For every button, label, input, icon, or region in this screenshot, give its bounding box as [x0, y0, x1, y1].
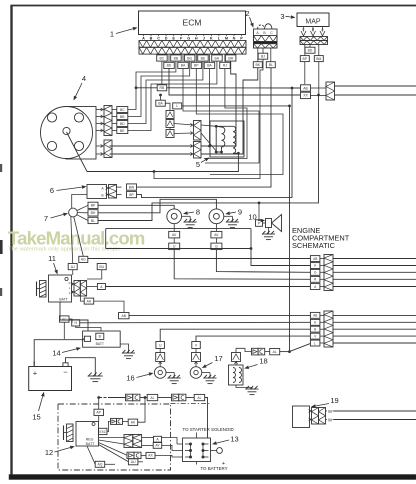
- splice 7 fan wires: [77, 205, 88, 210]
- svg-text:V: V: [195, 343, 198, 347]
- sender 8 code box upper: [169, 231, 180, 238]
- spark plug wire: [67, 132, 88, 172]
- svg-text:AU: AU: [131, 460, 136, 464]
- strip1 right wire A: [333, 286, 416, 288]
- wire H to strip2 H: [80, 321, 311, 324]
- wire battery plus to module 14: [34, 340, 84, 364]
- coil primary winding: [222, 127, 225, 147]
- svg-text:BATT: BATT: [86, 442, 96, 446]
- svg-text:P: P: [314, 264, 316, 268]
- distributor cap circle: [41, 107, 93, 159]
- wire MAP BP down: [304, 62, 306, 84]
- svg-text:BH: BH: [215, 56, 220, 60]
- sender 9 ground: [224, 215, 233, 217]
- wire BJ nested corner: [154, 59, 263, 178]
- svg-text:AV: AV: [214, 233, 219, 237]
- wire code box AL busA: [147, 394, 158, 400]
- svg-text:P: P: [258, 221, 261, 225]
- strip1 right wire G: [333, 271, 416, 273]
- svg-text:BP: BP: [303, 57, 308, 61]
- diode box D2: [166, 120, 174, 128]
- coil junction dots: [215, 125, 218, 128]
- svg-text:AY: AY: [155, 444, 160, 448]
- wire code box BH item7: [88, 210, 98, 216]
- wire code box L: [173, 103, 182, 109]
- svg-text:+: +: [222, 461, 225, 467]
- svg-text:REG: REG: [86, 437, 94, 441]
- wire 248 horizontal to strip P: [106, 248, 251, 250]
- svg-text:TakeManual.com: TakeManual.com: [8, 228, 145, 249]
- sensor 17 body: [190, 367, 202, 379]
- wire ECM b1 to RB: [161, 61, 163, 85]
- wire row2-b2 nested corner: [183, 69, 259, 164]
- svg-text:17: 17: [214, 354, 222, 363]
- pack 18 chain connector: [252, 348, 259, 355]
- svg-text:AB: AB: [313, 314, 317, 318]
- svg-text:L: L: [314, 341, 316, 345]
- svg-text:12: 12: [45, 448, 53, 457]
- svg-text:16: 16: [126, 374, 134, 383]
- svg-text:B: B: [150, 37, 153, 41]
- svg-text:BP: BP: [129, 193, 134, 197]
- bus wire segments: [108, 397, 126, 399]
- svg-text:BL: BL: [91, 219, 95, 223]
- wire code box AU: [128, 459, 138, 465]
- wire code box AG: [79, 256, 88, 262]
- wire code box A alt11: [97, 284, 105, 290]
- module 14 ground: [120, 344, 128, 353]
- wire code box AP: [94, 409, 104, 415]
- wire corner 228 horizontal: [106, 228, 251, 230]
- bus left dashes: [99, 397, 108, 399]
- module 14 box: [83, 331, 121, 347]
- starter connector 13 stubs: [177, 443, 183, 445]
- svg-text:BU: BU: [99, 265, 104, 269]
- svg-text:AB: AB: [313, 257, 317, 261]
- svg-text:The watermark only appears on: The watermark only appears on this sampl…: [8, 247, 120, 253]
- strip2 code box AB: [310, 312, 320, 318]
- wire sensor17 up to strip2 V: [196, 336, 311, 341]
- coil secondary winding: [233, 126, 236, 153]
- coil connector upper: [194, 121, 202, 141]
- svg-text:AL: AL: [150, 396, 154, 400]
- strip2 right wire B: [333, 328, 416, 330]
- MAP wire code box BP: [304, 44, 306, 55]
- svg-text:9: 9: [238, 208, 242, 217]
- exc chain arrows: [111, 418, 117, 424]
- svg-text:BL: BL: [269, 63, 273, 67]
- resistor pack 18 ground: [236, 385, 252, 389]
- strip2 code box V: [310, 333, 320, 339]
- wire code box BA: [156, 100, 166, 106]
- strip1 code box P: [310, 263, 320, 269]
- connector J2 jumper hump dashed: [258, 25, 265, 29]
- sender 8 body: [167, 209, 182, 224]
- strip1 right wire AB: [333, 258, 416, 260]
- bottom border bar: [9, 475, 416, 480]
- alternator 11 box: [49, 275, 72, 302]
- svg-text:7: 7: [44, 214, 48, 223]
- connector 19 bowties: [312, 408, 319, 425]
- bulkhead strip 1 zigzag: [324, 255, 333, 291]
- wire BW to BL corner: [137, 68, 272, 187]
- alternator 12 box: [76, 422, 99, 447]
- bulkhead strip 2 zigzag: [324, 311, 333, 347]
- svg-text:A: A: [314, 285, 317, 289]
- wire ECM b5 to distributor BE: [128, 61, 217, 130]
- ECM connector strip row 1: [139, 41, 246, 48]
- strip2 right wire AB: [333, 314, 416, 316]
- wire code box AH: [84, 298, 94, 304]
- wire distributor lower to coil C1: [110, 145, 194, 147]
- strip2 code box L: [310, 340, 320, 346]
- strip1 code box R: [310, 276, 320, 282]
- wire row2-b5 nested corner: [204, 69, 247, 159]
- distributor tower circles: [47, 113, 56, 122]
- svg-text:V: V: [314, 334, 317, 338]
- alternator 12 terminal circle: [92, 423, 95, 426]
- svg-text:C: C: [270, 31, 273, 35]
- svg-text:19: 19: [330, 396, 338, 405]
- svg-text:6: 6: [50, 186, 54, 195]
- battery 15 terminals: [33, 362, 35, 367]
- svg-text:H: H: [74, 321, 77, 325]
- wire sender8 down to strip R: [174, 250, 310, 280]
- strip1 code box G: [310, 269, 320, 275]
- wire row2-b4 junction: [209, 69, 211, 147]
- wire trunk x136 to distributor BC: [128, 61, 176, 109]
- svg-text:BE: BE: [201, 56, 206, 60]
- svg-text:G: G: [215, 245, 218, 249]
- svg-text:F: F: [69, 291, 71, 295]
- wire code box AX: [146, 452, 155, 458]
- sender 8 ground: [182, 215, 191, 217]
- svg-text:13: 13: [230, 435, 238, 444]
- module 14 inner plug: [84, 336, 90, 341]
- svg-text:B: B: [101, 194, 104, 198]
- svg-text:A: A: [156, 438, 159, 442]
- svg-text:W: W: [328, 409, 332, 414]
- svg-text:B: B: [263, 31, 266, 35]
- sensor 17 code box: [192, 342, 201, 349]
- wire BL7 big corner to MAP trunk: [98, 95, 319, 221]
- svg-text:A: A: [101, 187, 104, 191]
- wire code box BP item6: [127, 191, 137, 197]
- battery 15 box: [29, 367, 72, 391]
- dashed enclosure box: [58, 404, 171, 470]
- wire A-alt12 to starter connector: [162, 438, 178, 445]
- svg-text:8: 8: [196, 208, 200, 217]
- svg-text:BD: BD: [120, 122, 125, 126]
- svg-text:18: 18: [259, 357, 267, 366]
- border frame: [10, 5, 12, 479]
- wire diode to coil upper pins: [174, 124, 194, 126]
- connector J2 body: [254, 29, 278, 48]
- svg-text:G: G: [187, 37, 190, 41]
- svg-text:AB: AB: [303, 86, 308, 90]
- svg-text:BA: BA: [207, 64, 212, 68]
- svg-text:G: G: [314, 271, 317, 275]
- alternator 12 EXC box: [99, 428, 108, 434]
- bulkhead mini code box top: [301, 85, 311, 91]
- svg-text:BD: BD: [308, 49, 313, 53]
- svg-text:AC: AC: [62, 317, 67, 321]
- wire sensor16 up to strip2 B: [160, 329, 310, 341]
- svg-text:BH: BH: [91, 211, 96, 215]
- svg-text:A: A: [100, 285, 103, 289]
- wire code box BK: [253, 62, 262, 68]
- wire battery minus to ground: [66, 358, 96, 376]
- svg-text:RJ: RJ: [223, 64, 227, 68]
- diode box stubs: [169, 119, 171, 120]
- wire BH7 to sender 9: [98, 199, 216, 213]
- distributor body rect: [66, 107, 96, 160]
- svg-text:P: P: [240, 37, 243, 41]
- strip2 right wire V: [333, 335, 416, 337]
- svg-text:AL: AL: [273, 350, 277, 354]
- wire AG long to strip AB: [88, 258, 311, 260]
- connector 19 right wires: [334, 410, 416, 412]
- svg-text:AB: AB: [122, 314, 127, 318]
- svg-text:E: E: [172, 37, 175, 41]
- wire code box BW: [127, 184, 137, 190]
- distributor center tower: [63, 127, 70, 134]
- starter connector 13 terminal: [211, 450, 217, 452]
- svg-text:11: 11: [48, 254, 56, 263]
- svg-text:U: U: [173, 245, 176, 249]
- svg-text:MAP: MAP: [305, 19, 321, 26]
- strip1 code box AB: [310, 256, 320, 262]
- svg-text:R: R: [69, 281, 71, 285]
- svg-text:BG: BG: [187, 56, 192, 60]
- sensor 16 connector: [156, 353, 165, 362]
- svg-text:C: C: [157, 37, 160, 41]
- wire AU stub: [138, 461, 143, 463]
- svg-text:L: L: [69, 286, 71, 290]
- svg-text:1: 1: [110, 30, 114, 39]
- svg-text:L: L: [218, 37, 221, 41]
- wire row2-b1 long line: [169, 69, 301, 96]
- svg-text:14: 14: [52, 349, 60, 358]
- ECM U1 box: [139, 11, 246, 35]
- wire L box long line: [182, 105, 290, 107]
- svg-text:BATT: BATT: [59, 298, 67, 302]
- diode box D3: [166, 130, 174, 138]
- wire RB left to junction: [136, 87, 157, 89]
- svg-text:A: A: [142, 37, 145, 41]
- svg-text:BK: BK: [256, 63, 261, 67]
- svg-text:BM: BM: [316, 57, 321, 61]
- lower connector pair 12: [127, 452, 134, 458]
- bulkhead mini right wires: [335, 85, 416, 87]
- svg-text:5: 5: [196, 160, 200, 169]
- svg-text:TO STARTER SOLENOID: TO STARTER SOLENOID: [183, 427, 234, 432]
- strip1 right wire R: [333, 278, 416, 280]
- svg-text:XX: XX: [303, 94, 308, 98]
- wire code box AJ: [68, 264, 77, 270]
- svg-text:H: H: [314, 321, 317, 325]
- sensor 16 ground: [166, 372, 174, 374]
- svg-text:B: B: [99, 335, 102, 339]
- bus connector pair A: [126, 394, 133, 401]
- sender 9 code box upper: [211, 231, 222, 238]
- ECM wire code boxes row 2: [164, 62, 175, 68]
- svg-text:BATT: BATT: [96, 342, 104, 346]
- svg-text:AP: AP: [96, 411, 101, 415]
- svg-text:+: +: [33, 369, 38, 378]
- sender 9 code box lower: [211, 243, 222, 250]
- wire code box AQ: [95, 461, 105, 467]
- svg-text:H: H: [195, 37, 198, 41]
- svg-text:EXC: EXC: [100, 430, 107, 434]
- svg-text:B: B: [314, 328, 316, 332]
- strip2 right wire H: [333, 321, 416, 323]
- wire code box H: [72, 320, 80, 326]
- svg-text:N: N: [233, 37, 236, 41]
- wire code box AC: [60, 316, 70, 322]
- sender 8 code box lower: [169, 243, 180, 250]
- connector J2 zigzag rows: [254, 36, 278, 42]
- alternator 12 plug bar: [63, 426, 65, 441]
- strip2 right wire L: [333, 342, 416, 344]
- distributor wire code boxes: [117, 107, 128, 113]
- svg-text:AK: AK: [131, 421, 136, 425]
- sensor 16 body: [154, 367, 166, 379]
- svg-text:BP: BP: [194, 64, 199, 68]
- module A6 box: [87, 185, 107, 199]
- wire H box down to module 14: [76, 326, 101, 331]
- svg-text:3: 3: [280, 12, 284, 21]
- wire BP7 to sender 8: [98, 205, 174, 209]
- svg-text:BB: BB: [120, 115, 125, 119]
- alternator 12 plug hatched: [67, 424, 74, 442]
- wire AK bus tap: [144, 396, 147, 399]
- horn 10 ground: [268, 228, 270, 235]
- wire AB2 box to strip2 AB: [119, 313, 130, 319]
- svg-text:L: L: [176, 104, 178, 108]
- coil inner vertical wire: [215, 126, 217, 152]
- MAP sensor U3 box: [297, 13, 329, 27]
- diode box D1: [166, 111, 174, 119]
- wire code box AL busB: [194, 394, 205, 400]
- wire corner 228 vertical: [105, 229, 107, 249]
- battery ground symbol: [88, 375, 103, 377]
- module A6 connector: [109, 185, 117, 199]
- coil bowtie-to-winding wires: [201, 125, 216, 126]
- svg-text:RB: RB: [160, 86, 165, 90]
- coil connector lower: [194, 142, 202, 159]
- wire alt A to strip A: [105, 286, 310, 288]
- horn 10 body: [266, 219, 272, 228]
- wire code box AL chain18: [270, 349, 280, 355]
- svg-text:U: U: [159, 343, 162, 347]
- wire long vertical x289 to chain: [289, 106, 291, 352]
- wire AP bus tap: [97, 396, 100, 399]
- wire ECM b3 to distributor BB: [128, 61, 190, 116]
- wire distributor lower to coil C2: [110, 153, 194, 155]
- wire code box BL: [266, 62, 275, 68]
- svg-text:15: 15: [32, 413, 40, 422]
- svg-text:BD: BD: [167, 64, 172, 68]
- svg-text:4: 4: [82, 74, 86, 83]
- starter connector 13 pins: [189, 443, 192, 446]
- coil case rect: [210, 121, 244, 157]
- wire MAP BM down: [318, 62, 320, 95]
- wire horn P tap: [258, 203, 260, 220]
- wire alt11 BATT down to module 14: [60, 302, 88, 331]
- module 14 code box B: [96, 333, 104, 339]
- connector J2 pin stubs: [257, 48, 259, 62]
- MAP connector strip: [300, 37, 328, 41]
- sensor 17 ground: [202, 372, 210, 374]
- bulkhead mini strip: [326, 82, 335, 100]
- svg-text:W: W: [328, 418, 332, 423]
- svg-text:J: J: [203, 37, 205, 41]
- sender 8 stub wires: [173, 224, 175, 232]
- wire sender9 down to strip G: [216, 250, 310, 273]
- distributor connector strip lower: [104, 140, 112, 158]
- ECM wire code boxes row 1: [157, 55, 168, 61]
- MAP pin chevrons: [301, 31, 306, 36]
- sender 9 body: [209, 209, 224, 224]
- wire row2-b3 nested corner: [196, 69, 283, 175]
- scan artifact left edge 2: [0, 240, 3, 254]
- strip2 code box B: [310, 326, 320, 332]
- wire code box BP item7: [88, 202, 98, 208]
- resistor pack 18 connector: [232, 353, 241, 362]
- alternator 11 plug bar: [36, 282, 38, 297]
- svg-text:BP: BP: [91, 204, 96, 208]
- svg-text:D: D: [165, 37, 168, 41]
- MAP wire code box BM: [318, 44, 320, 55]
- bus connector pair B: [172, 394, 179, 401]
- strip2 code box H: [310, 319, 320, 325]
- wire code box AY: [153, 443, 162, 449]
- svg-text:AV: AV: [172, 233, 177, 237]
- pack 18 chain wires: [235, 348, 237, 352]
- svg-text:M: M: [225, 37, 228, 41]
- svg-text:2: 2: [245, 9, 249, 18]
- svg-text:B: B: [312, 28, 315, 32]
- svg-text:AJ: AJ: [71, 265, 75, 269]
- svg-text:BW: BW: [129, 185, 135, 189]
- svg-text:10: 10: [248, 213, 256, 222]
- svg-text:AL: AL: [197, 396, 201, 400]
- alternator 12 fan wires: [99, 437, 125, 439]
- distributor connector strip upper: [104, 106, 112, 136]
- scan artifact left edge 1: [0, 164, 2, 172]
- svg-text:AX: AX: [148, 454, 153, 458]
- strip1 code box A: [310, 284, 320, 290]
- sensor 17 connector: [192, 353, 201, 362]
- coil bottom links: [216, 151, 221, 153]
- svg-text:F: F: [180, 37, 183, 41]
- svg-text:ECM: ECM: [183, 18, 202, 28]
- connector 19 stub wires: [326, 410, 328, 412]
- wire RB long line to bulkhead: [167, 87, 301, 89]
- wire code box BJ: [258, 53, 268, 59]
- alternator 11 plug hatched: [40, 281, 47, 298]
- bus right dash segment: [171, 403, 212, 405]
- wire BP6 big corner: [137, 88, 293, 197]
- svg-text:SCHEMATIC: SCHEMATIC: [292, 241, 336, 250]
- svg-text:AQ: AQ: [98, 463, 103, 467]
- connector J2 jumper hump solid: [265, 24, 273, 29]
- alternator 11 terminal circle: [65, 277, 68, 280]
- resistor pack 18 body: [229, 365, 244, 385]
- sensor 16 code box: [156, 342, 165, 349]
- svg-text:BC: BC: [120, 108, 125, 112]
